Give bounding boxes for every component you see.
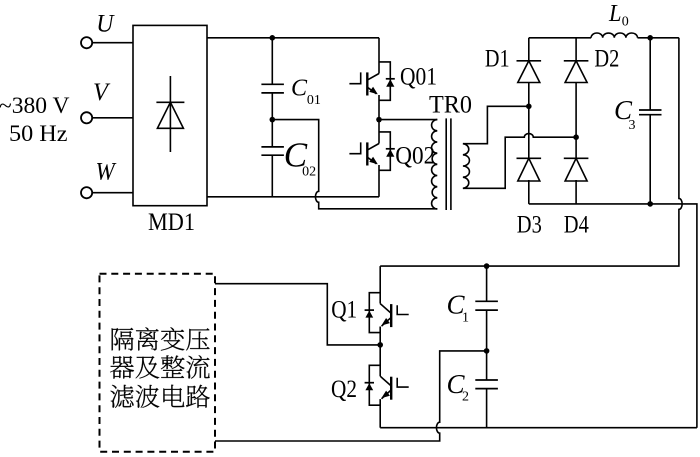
- svg-text:50 Hz: 50 Hz: [9, 121, 68, 146]
- svg-text:D2: D2: [594, 46, 619, 73]
- transistor Q1 (IGBT): [331, 266, 409, 345]
- wire bottom DC rail: [207, 196, 379, 198]
- svg-text:Q2: Q2: [331, 376, 357, 403]
- wire secondary top to bridge left: [463, 106, 529, 143]
- node: junction C1 top: [484, 263, 490, 269]
- wire bridge bottom rail to right edge: [529, 204, 697, 428]
- wire: [93, 42, 133, 44]
- node: junction bridge left midpoint: [526, 104, 532, 110]
- wire midpoint to transformer primary: [379, 119, 437, 121]
- wire L0 to output: [638, 37, 679, 39]
- wire output positive down to lower stage (hops over bottom wire): [487, 38, 683, 266]
- wire secondary bottom to bridge right (hops over left branch): [463, 134, 576, 189]
- diode D4: [564, 137, 589, 238]
- inductor L0: [591, 1, 637, 38]
- node: junction capacitor midpoint: [270, 117, 276, 123]
- wire lower top rail: [380, 265, 486, 267]
- wire top DC rail: [207, 37, 379, 39]
- diode D3: [517, 106, 542, 238]
- svg-text:V: V: [93, 79, 111, 106]
- svg-text:2: 2: [462, 390, 469, 405]
- wire: [93, 192, 133, 194]
- svg-text:D3: D3: [517, 211, 542, 238]
- capacitor C2: [447, 351, 498, 428]
- node: junction Q01/Q02 midpoint: [376, 117, 382, 123]
- svg-text:0: 0: [622, 15, 629, 30]
- wire dashed box to Q1/Q2 midpoint: [215, 284, 380, 345]
- svg-text:TR0: TR0: [429, 92, 472, 119]
- svg-text:1: 1: [462, 311, 469, 326]
- terminal U: [81, 11, 115, 49]
- svg-text:3: 3: [629, 118, 636, 133]
- node: junction bridge right midpoint: [573, 134, 579, 140]
- capacitor C02: [261, 120, 316, 197]
- capacitor C01: [261, 38, 321, 120]
- svg-text:U: U: [96, 11, 115, 38]
- wire capacitor midpoint to transformer return (hops over bottom rail): [272, 120, 437, 209]
- wire C1/C2 midpoint to dashed box (hops over bottom rail): [215, 351, 487, 441]
- svg-text:L: L: [608, 1, 621, 27]
- svg-text:W: W: [96, 159, 117, 186]
- terminal W: [81, 159, 117, 199]
- svg-text:Q02: Q02: [395, 143, 435, 170]
- svg-text:~380 V: ~380 V: [0, 93, 70, 118]
- node: junction Q1/Q2 midpoint: [377, 342, 383, 348]
- source label ~380 V 50 Hz: [0, 93, 70, 146]
- node: junction C01 top: [270, 35, 276, 41]
- capacitor C3: [614, 38, 662, 204]
- diode D2: [564, 38, 620, 137]
- svg-text:Q1: Q1: [331, 297, 357, 324]
- svg-text:D1: D1: [485, 46, 510, 73]
- transistor Q01 (IGBT): [349, 38, 437, 120]
- dashed box: isolation transformer and rectifier filter circuit: [100, 274, 216, 452]
- transistor Q02 (IGBT): [349, 120, 435, 197]
- transistor Q2 (IGBT): [331, 345, 409, 428]
- node: junction C3 bottom: [647, 201, 653, 207]
- svg-text:MD1: MD1: [148, 209, 195, 236]
- diode D1: [485, 38, 541, 107]
- wire lower bottom rail: [380, 427, 697, 429]
- svg-text:Q01: Q01: [400, 63, 437, 90]
- svg-text:C: C: [291, 76, 308, 102]
- label (Chinese): isolation transformer and rectification-filter circuit: [110, 327, 210, 408]
- wire: [93, 117, 133, 119]
- svg-text:02: 02: [302, 165, 316, 180]
- wire bridge top rail: [529, 37, 591, 39]
- svg-text:01: 01: [307, 93, 321, 108]
- rectifier MD1: [133, 25, 207, 236]
- terminal V: [81, 79, 111, 123]
- svg-text:D4: D4: [564, 211, 589, 238]
- capacitor C1: [447, 266, 498, 351]
- transformer TR0: [429, 92, 472, 211]
- node: junction C1/C2 midpoint: [484, 348, 490, 354]
- node: junction L0/C3 top: [647, 35, 653, 41]
